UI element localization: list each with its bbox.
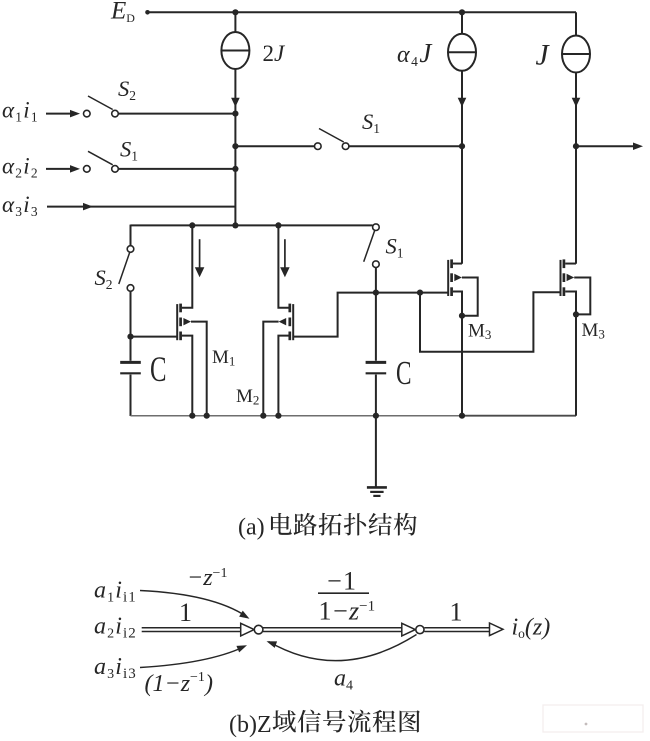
capacitor C2 top lead: [375, 293, 377, 361]
capacitor C1 top lead: [130, 337, 132, 361]
wire top rail E_D: [147, 11, 576, 13]
arrow M1 source: [183, 318, 191, 325]
junction dot M1 drain on rail: [189, 222, 195, 228]
svg-text:1: 1: [450, 598, 463, 627]
junction dot J branch: [573, 143, 579, 149]
arrow channel current M2: [284, 239, 286, 268]
junction dot M3a source: [459, 313, 465, 319]
switch S2 row1 lever: [88, 96, 113, 110]
junction dot ground node: [373, 413, 379, 419]
wire gate M1: [131, 336, 178, 338]
junction dot row2: [232, 166, 238, 172]
switch S2v lever: [119, 252, 130, 284]
svg-text:S2: S2: [95, 265, 113, 292]
wire to S1 switch: [235, 145, 314, 147]
capacitor C1 bottom plate: [120, 372, 141, 374]
switch S1 row2 right contact: [112, 166, 119, 173]
svg-text:(a): (a): [238, 515, 265, 541]
svg-text:a1ii1: a1ii1: [94, 578, 137, 606]
caption (b) z-domain signal flow graph: [229, 710, 420, 738]
wire gate detour to M3b: [420, 292, 561, 352]
branch a1 curve: [140, 591, 247, 617]
wire output right: [576, 145, 636, 147]
switch S1 mid left contact: [315, 143, 322, 150]
arrow current a4J: [458, 98, 467, 107]
capacitor C2 bottom plate: [366, 372, 387, 374]
wire stub a4J from rail: [461, 12, 463, 34]
svg-text:a2ii2: a2ii2: [94, 614, 137, 642]
arrow M3a source: [454, 274, 462, 281]
switch S1v top contact: [373, 224, 380, 231]
junction dot M1 source rail: [204, 413, 210, 419]
switch S1v bottom contact: [373, 261, 380, 268]
transistor M2: [292, 304, 294, 340]
wire M3a source loop: [462, 277, 478, 315]
wire M2 gate detour: [293, 293, 448, 337]
integrator double line: [263, 627, 403, 629]
svg-text:S2: S2: [118, 76, 136, 103]
arrow input 2: [70, 165, 80, 173]
wire row1 to main node: [118, 113, 235, 115]
arrow M2 source: [279, 318, 287, 325]
wire stub 2J from rail: [234, 12, 236, 32]
junction dot top rail at 2J: [232, 9, 238, 15]
wire input 2: [46, 168, 70, 170]
svg-text:io(z): io(z): [512, 615, 551, 642]
svg-text:α2i2: α2i2: [2, 154, 39, 181]
arrow channel current M1: [199, 239, 201, 268]
junction dot branch S1: [232, 143, 238, 149]
output arrowhead: [490, 623, 504, 636]
wire M3a bulk down: [453, 291, 462, 415]
svg-text:M1: M1: [212, 347, 235, 369]
transistor M1: [176, 304, 178, 340]
svg-text:1: 1: [179, 598, 192, 627]
arrow output: [633, 142, 643, 150]
svg-text:−1: −1: [326, 567, 357, 596]
wire top rail corner down to J: [575, 12, 577, 35]
junction dot M2 bulk rail: [275, 413, 281, 419]
wire S1v down: [375, 267, 377, 292]
svg-text:ED: ED: [110, 0, 135, 25]
junction dot detour: [417, 290, 423, 296]
junction dot node B: [373, 290, 379, 296]
switch S1v lever: [364, 231, 375, 262]
wire rail corner to S2v: [130, 225, 132, 246]
wire M2 source down: [263, 322, 278, 416]
wire M3b bulk down: [565, 291, 576, 415]
svg-text:(b)Z: (b)Z: [229, 712, 272, 738]
capacitor C1 top plate: [120, 361, 141, 364]
current source J: [562, 36, 590, 73]
svg-text:1−z−1: 1−z−1: [319, 597, 376, 626]
arrow current 2J: [231, 98, 240, 107]
junction dot M2 drain on rail: [275, 222, 281, 228]
svg-text:(1−z−1): (1−z−1): [145, 670, 213, 697]
caption (a) circuit topology: [238, 513, 417, 541]
junction dot row1: [232, 111, 238, 117]
wire M3b drain: [565, 263, 576, 265]
switch S2 row1 right contact: [112, 110, 119, 117]
arrow input 3: [83, 203, 93, 211]
wire M1 source down: [191, 322, 207, 416]
branch a2 double line: [142, 627, 242, 629]
wire to ground: [375, 416, 377, 487]
branch a3 curve: [140, 647, 244, 668]
junction dot M2 source rail: [260, 413, 266, 419]
svg-text:a3ii3: a3ii3: [94, 654, 137, 682]
junction dot a4J branch: [459, 143, 465, 149]
transistor M3b: [560, 260, 562, 296]
wire S2v to C1 node: [130, 291, 132, 337]
wire M2 drain: [278, 225, 288, 307]
capacitor C1 bottom lead: [130, 375, 132, 416]
switch S1 mid lever: [319, 129, 344, 143]
capacitor C2 bottom lead: [375, 375, 377, 416]
fraction bar: [318, 592, 369, 594]
wire row2 to main node: [118, 168, 235, 170]
svg-text:α4J: α4J: [397, 38, 433, 69]
svg-text:M3: M3: [582, 320, 605, 342]
wire M3a drain: [453, 263, 462, 265]
faint box artifact: [543, 705, 643, 732]
wire a4J output down to M3a drain: [461, 71, 463, 264]
wire bottom rail: [131, 415, 463, 417]
svg-text:2J: 2J: [263, 41, 287, 66]
node 2: [416, 626, 424, 634]
svg-text:S1: S1: [362, 109, 380, 136]
current source a4J: [448, 34, 476, 71]
junction dot top rail at a4J: [459, 9, 465, 15]
wire M2 bulk down: [278, 336, 288, 416]
switch S1 mid right contact: [342, 143, 349, 150]
wire M3b source loop: [574, 277, 590, 314]
node E_D terminal dot: [145, 10, 150, 15]
node 1: [254, 625, 263, 634]
junction dot main node bottom: [232, 222, 238, 228]
junction dot M3b source: [573, 311, 579, 317]
switch S2v top contact: [127, 246, 134, 253]
arrow current J: [572, 98, 581, 107]
capacitor C2 top plate: [366, 361, 387, 364]
wire input 3: [47, 206, 235, 208]
wire lower rail: [131, 224, 373, 226]
svg-text:M2: M2: [236, 386, 259, 408]
svg-text:C: C: [150, 349, 167, 389]
integrator arrowhead: [402, 623, 416, 636]
svg-text:α3i3: α3i3: [2, 192, 39, 219]
output double line: [424, 627, 492, 629]
transistor M3a: [447, 260, 449, 296]
ground: [367, 486, 387, 489]
switch S2v bottom contact: [127, 285, 134, 292]
arrow M3b source: [567, 274, 575, 281]
svg-text:C: C: [396, 355, 412, 392]
svg-text:S1: S1: [120, 137, 138, 164]
wire 2J output down: [234, 69, 236, 225]
wire J output down to M3b drain: [575, 73, 577, 264]
current source 2J: [221, 32, 249, 69]
arrow input 1: [70, 110, 80, 118]
svg-text:a4: a4: [334, 666, 353, 694]
svg-text:α1i1: α1i1: [2, 98, 39, 125]
branch a2 arrowhead: [241, 623, 255, 636]
junction dot M1 bulk rail: [189, 413, 195, 419]
wire S1 to a4J branch: [349, 145, 462, 147]
switch S2 row1 left contact: [84, 110, 91, 117]
junction dot C1 gate node: [127, 334, 133, 340]
feedback a4 curve: [269, 635, 417, 661]
svg-text:M3: M3: [468, 321, 491, 343]
svg-text:J: J: [536, 40, 551, 72]
switch S1 row2 lever: [88, 151, 113, 165]
wire M1 drain: [182, 225, 192, 307]
wire M1 bulk down: [182, 336, 192, 416]
svg-text:S1: S1: [386, 234, 404, 261]
junction dot M3a rail: [459, 413, 465, 419]
wire input 1: [46, 113, 70, 115]
svg-text:−z−1: −z−1: [187, 565, 227, 591]
switch S1 row2 left contact: [84, 166, 91, 173]
